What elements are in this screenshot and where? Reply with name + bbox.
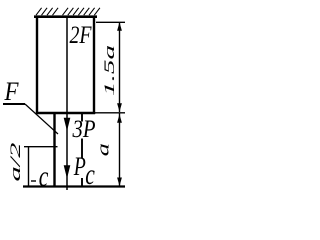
svg-text:a/2: a/2 [7,143,23,182]
svg-text:1.5a: 1.5a [101,45,118,96]
svg-text:P: P [73,151,86,180]
svg-text:2F: 2F [70,22,93,49]
svg-text:a: a [93,143,112,156]
svg-text:F: F [4,77,20,106]
svg-text:c: c [85,158,95,191]
svg-text:c: c [39,160,49,193]
svg-text:3P: 3P [72,116,96,143]
